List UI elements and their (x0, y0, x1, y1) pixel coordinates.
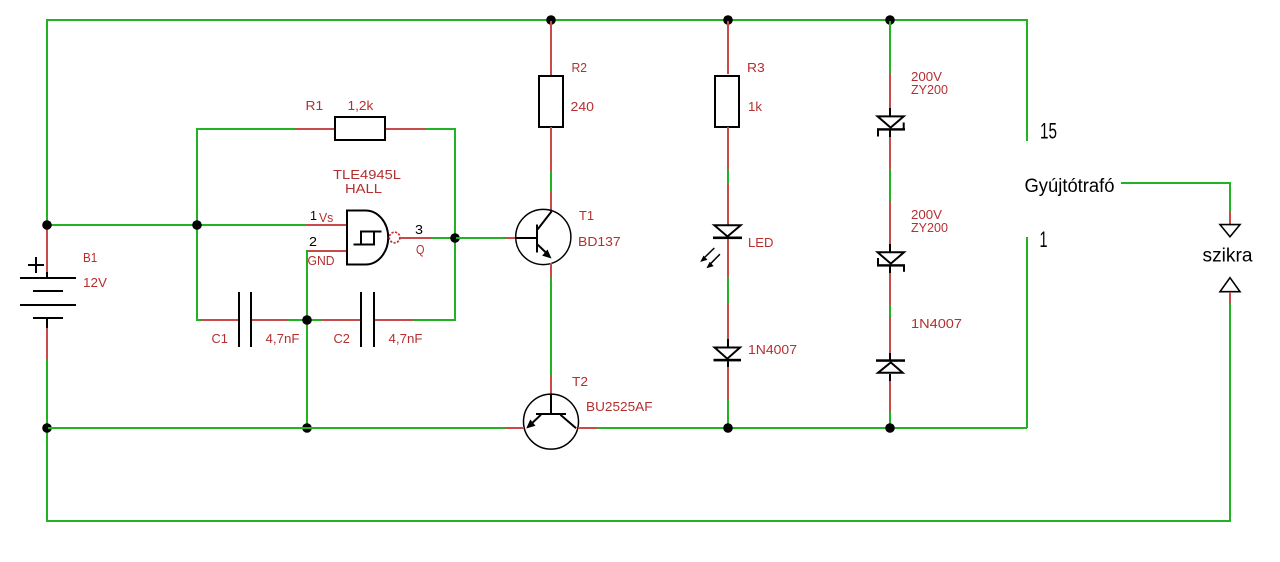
svg-text:T1: T1 (579, 208, 594, 223)
svg-text:1: 1 (310, 208, 317, 223)
svg-text:1N4007: 1N4007 (748, 342, 797, 357)
wire Vs rail battery to hall (48, 224, 306, 226)
svg-text:R2: R2 (572, 60, 588, 75)
wire LED bottom lead (red) (727, 239, 729, 277)
wire trafo to spark gap horizontal (1121, 182, 1231, 184)
svg-text:R3: R3 (747, 60, 765, 75)
capacitor C2 right lead (red) (375, 319, 414, 321)
wire T2 emitter lead (red) (505, 427, 524, 429)
wire T1 base green (456, 237, 505, 239)
wire D1 to rail (green) (727, 400, 729, 428)
wire R2 bottom lead (red) (550, 127, 552, 171)
wire right branch terminal 15 (1026, 21, 1028, 141)
wire T1 collector lead (red) (550, 192, 552, 212)
junction ground rail x307 (302, 423, 312, 433)
wire spark gap top lead (red) (1229, 212, 1231, 225)
wire D1 top lead (red) (727, 303, 729, 339)
wire Z2 top lead (red) (889, 201, 891, 244)
capacitor C2 left lead (red) (322, 319, 360, 321)
junction top rail zener (885, 15, 895, 25)
wire hall output green to junction (431, 237, 454, 239)
wire mid rail right (green) (597, 427, 1027, 429)
transistor T2 (524, 394, 579, 449)
svg-text:2: 2 (309, 234, 317, 249)
wire T2 base lead (red) (550, 375, 552, 395)
wire spark to bottom rail (green) (1229, 304, 1231, 522)
wire D2 top lead (red) (889, 317, 891, 353)
svg-text:T2: T2 (572, 374, 588, 389)
wire R2-T1 green segment (550, 171, 552, 192)
wire R1 lead right (red) (386, 128, 426, 130)
diode D1 1N4007 (714, 339, 742, 367)
wire R3-LED green segment (727, 170, 729, 184)
svg-text:GND: GND (308, 253, 335, 268)
svg-text:1k: 1k (748, 99, 763, 114)
svg-text:Vs: Vs (319, 210, 334, 225)
svg-text:HALL: HALL (345, 181, 382, 196)
diode D2 1N4007 (876, 353, 905, 381)
wire R3 top lead (red) (727, 21, 729, 74)
wire battery negative lead (red) (46, 328, 48, 359)
svg-text:240: 240 (571, 99, 595, 114)
hall output bubble (389, 232, 400, 243)
wire LED top lead (red) (727, 184, 729, 225)
wire ground rail left (green) (48, 427, 505, 429)
resistor R3 (715, 76, 739, 127)
capacitor C2 (360, 292, 375, 347)
wire LED-D1 green segment (727, 277, 729, 303)
resistor R1 (335, 117, 385, 140)
svg-text:4,7nF: 4,7nF (389, 331, 423, 346)
wire hall gnd riser (green) (306, 250, 308, 428)
svg-text:R1: R1 (306, 98, 324, 113)
junction cap midpoint (302, 315, 312, 325)
junction mid rail x728 (723, 423, 733, 433)
svg-text:TLE4945L: TLE4945L (333, 167, 401, 182)
wire bottom rail (46, 520, 1231, 522)
wire zener branch top green (889, 21, 891, 74)
junction mid rail x890 (885, 423, 895, 433)
spark gap bottom electrode (1220, 278, 1240, 292)
hysteresis symbol (354, 231, 382, 245)
diode Z1 ZY200 (877, 108, 905, 137)
svg-text:12V: 12V (83, 275, 107, 290)
wire Z1 top lead (red) (889, 74, 891, 108)
junction top rail R3 (723, 15, 733, 25)
svg-text:Q: Q (416, 242, 425, 257)
junction battery ground node (42, 423, 52, 433)
svg-text:1: 1 (1040, 227, 1048, 252)
svg-text:ZY200: ZY200 (911, 82, 948, 97)
wire T1-T2 green segment (550, 278, 552, 375)
wire Z2 bottom lead (red) (889, 273, 891, 305)
wire D2 bottom lead (red) (889, 381, 891, 412)
wire R1 row green left (198, 128, 295, 130)
svg-text:LED: LED (748, 235, 774, 250)
svg-text:1,2k: 1,2k (348, 98, 374, 113)
op-amp U1 hall sensor body (347, 211, 388, 265)
wire D1 bottom lead (red) (727, 367, 729, 400)
svg-text:15: 15 (1040, 119, 1057, 144)
svg-text:C1: C1 (212, 331, 228, 346)
wire right branch terminal 1 (1026, 237, 1028, 428)
spark gap top electrode (1220, 225, 1240, 237)
wire T2 collector lead (red) (578, 427, 597, 429)
svg-text:B1: B1 (83, 250, 97, 265)
capacitor C1 (238, 292, 252, 347)
wire hall pin1 lead (red) (306, 224, 348, 226)
svg-text:ZY200: ZY200 (911, 220, 948, 235)
capacitor C1 left lead (196, 319, 238, 321)
wire spark gap bottom lead (red) (1229, 292, 1231, 304)
wire R1 lead left (red) (295, 128, 334, 130)
wire spark gap drop (green) (1229, 184, 1231, 212)
svg-text:BD137: BD137 (578, 234, 621, 249)
wire hall pin2 lead (red) (307, 250, 348, 252)
wire D2 to rail (green) (889, 412, 891, 428)
wire left vertical from top rail to Vs node (46, 19, 48, 225)
wire right riser R1 to C2 (454, 128, 456, 321)
battery B1 (20, 257, 76, 328)
wire C2 to right riser (green) (414, 319, 456, 321)
svg-text:1N4007: 1N4007 (911, 316, 962, 331)
wire Z1-Z2 green segment (889, 169, 891, 201)
wire R3 bottom lead (red) (727, 127, 729, 170)
junction hall output node (450, 233, 460, 243)
svg-text:Gyújtótrafó: Gyújtótrafó (1025, 176, 1115, 197)
wire battery positive lead (red) (46, 226, 48, 272)
junction top rail R2 (546, 15, 556, 25)
wire top rail (46, 19, 1028, 21)
wire battery to ground rail (green) (46, 359, 48, 522)
wire T1 emitter lead (red) (550, 263, 552, 278)
wire hall output lead (red) (400, 237, 431, 239)
junction Vs rail x197 (192, 220, 202, 230)
capacitor C1 right lead (red) (252, 319, 288, 321)
svg-text:BU2525AF: BU2525AF (586, 399, 653, 414)
resistor R2 (539, 76, 563, 127)
wire Z2-D2 green segment (889, 305, 891, 317)
diode LED (700, 225, 742, 268)
wire C1-C2 green middle (288, 319, 322, 321)
wire T1 base lead (red) (505, 237, 517, 239)
svg-text:szikra: szikra (1203, 246, 1253, 267)
junction battery Vs node (42, 220, 52, 230)
svg-text:3: 3 (415, 222, 423, 237)
diode Z2 ZY200 (877, 244, 905, 273)
svg-text:C2: C2 (334, 331, 350, 346)
wire R1 row green right (426, 128, 455, 130)
wire Z1 bottom lead (red) (889, 137, 891, 169)
wire R1 left riser (196, 128, 198, 321)
transistor T1 (516, 209, 571, 264)
wire R2 top lead (red) (550, 21, 552, 76)
svg-text:4,7nF: 4,7nF (266, 331, 300, 346)
